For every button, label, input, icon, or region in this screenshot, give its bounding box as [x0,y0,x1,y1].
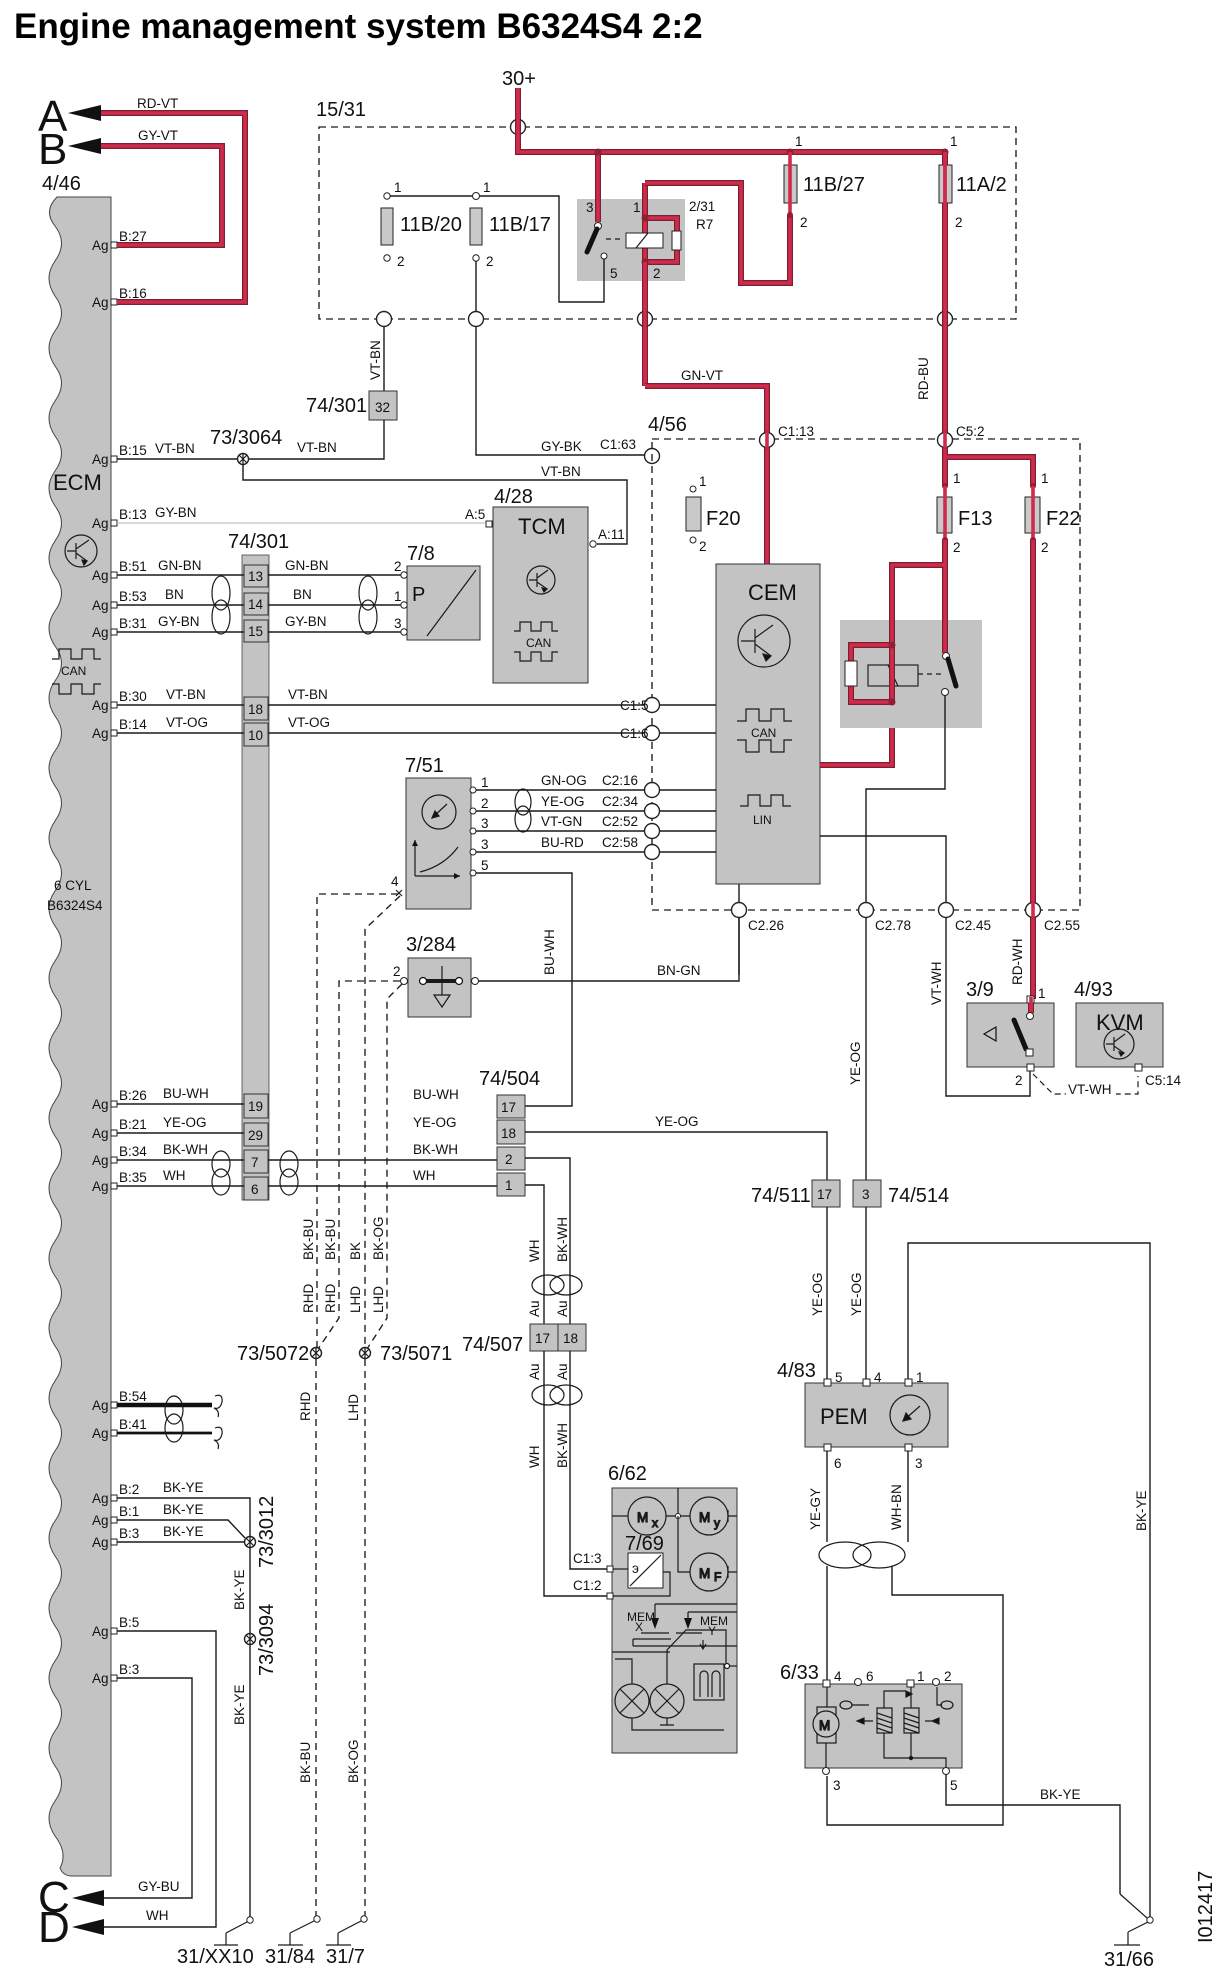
wire YE-OG 74/511 down to PEM pin5 [826,1207,828,1379]
svg-text:BU-WH: BU-WH [413,1087,459,1102]
svg-text:7/8: 7/8 [407,543,435,565]
wire YE-GY PEM pin6 down to 6/33 pin4 [826,1451,828,1680]
lamp 1 [615,1659,724,1730]
twist on PEM pair [819,1542,905,1568]
svg-text:2: 2 [1015,1073,1023,1088]
svg-text:BK-WH: BK-WH [555,1423,570,1468]
ground switch 31/66 [1114,1894,1153,1945]
ECM pin B:26 (Ag) [92,1088,147,1112]
svg-text:GN-VT: GN-VT [681,368,723,383]
svg-text:3: 3 [833,1778,841,1793]
wire B:34 BK-WH row to 74/504-2 [117,1159,497,1161]
svg-text:B:13: B:13 [119,507,147,522]
wire red 30+ branch to relay pin 3 [595,152,601,222]
svg-text:6: 6 [834,1456,842,1471]
svg-text:6/62: 6/62 [608,1463,647,1485]
svg-text:WH: WH [527,1446,542,1469]
svg-text:73/5071: 73/5071 [380,1343,452,1365]
svg-text:BK-YE: BK-YE [1134,1490,1149,1531]
relay 2/31 switch [595,223,602,230]
dashed VT-WH 3/9 pin2 to KVM C5:14 [1033,1074,1138,1094]
junction 73/5072 [311,1347,322,1359]
ECM pin B:54 (Ag) [92,1389,147,1413]
svg-text:Ag: Ag [92,295,109,310]
svg-text:10: 10 [248,728,263,743]
connector circle C2:16 [645,783,660,798]
connector circle on top edge [511,120,526,135]
svg-text:B:30: B:30 [119,689,147,704]
svg-text:GY-BN: GY-BN [285,614,327,629]
cells 13,14,15,18,10,19,29,7,6 [244,565,268,1200]
wire B:35 WH row to 74/504-1 [117,1185,497,1187]
connector circle C2:52 [645,824,660,839]
svg-text:31/84: 31/84 [265,1946,315,1968]
ECM pin B:31 (Ag) [92,616,147,640]
svg-text:WH: WH [146,1908,169,1923]
svg-text:BU-WH: BU-WH [163,1086,209,1101]
TCM pin A:11 [590,541,596,547]
svg-text:4/56: 4/56 [648,414,687,436]
svg-text:B:35: B:35 [119,1170,147,1185]
svg-text:1: 1 [950,134,958,149]
wire GY-VT (red) B to B:27 [101,146,222,245]
svg-text:RD-WH: RD-WH [1010,939,1025,986]
svg-text:2: 2 [1041,540,1049,555]
svg-text:5: 5 [950,1778,958,1793]
svg-text:2: 2 [393,964,401,979]
svg-text:x: x [652,1516,658,1530]
svg-text:2: 2 [953,540,961,555]
wire YE-OG from 74/504-18 to 74/511 [525,1132,827,1180]
svg-text:Au: Au [555,1300,570,1317]
wire B:30 VT-BN row to C1:5 [117,704,716,706]
red F22-2 down RD-WH through C2.55 [1030,540,1036,999]
svg-text:B:14: B:14 [119,717,147,732]
svg-text:M: M [819,1718,830,1733]
svg-text:VT-BN: VT-BN [166,687,206,702]
svg-text:1: 1 [633,200,641,215]
svg-text:17: 17 [535,1331,550,1346]
wire GY-BU from B:3 [104,1678,192,1898]
svg-text:LIN: LIN [753,813,772,827]
svg-text:LHD: LHD [346,1394,361,1421]
relay 2/31 coil [645,183,677,262]
ECM pin B:30 (Ag) [92,689,147,713]
svg-text:74/301: 74/301 [228,531,289,553]
svg-text:B:5: B:5 [119,1615,139,1630]
wire VT-BN from 11B/17-2 circle down, then GY-BK to C1:63 [476,327,645,455]
svg-text:P: P [412,584,425,606]
svg-text:C2:16: C2:16 [602,773,638,788]
fuse F13 [942,483,948,489]
svg-text:CEM: CEM [748,580,797,605]
svg-text:Ag: Ag [92,625,109,640]
connector circle C5:2 [938,433,953,448]
svg-text:ECM: ECM [53,470,102,495]
svg-text:VT-BN: VT-BN [297,440,337,455]
wire BK-YE down to 73/3094 [249,1548,251,1634]
svg-text:C2:34: C2:34 [602,794,639,809]
svg-text:11B/17: 11B/17 [489,214,551,236]
svg-text:C2.55: C2.55 [1044,918,1080,933]
svg-text:3/9: 3/9 [966,979,994,1001]
svg-text:YE-GY: YE-GY [808,1488,823,1530]
svg-text:3: 3 [862,1187,870,1202]
fuse F22 [1030,483,1036,489]
wire B:2 BK-YE [117,1498,250,1536]
svg-text:C1:63: C1:63 [600,437,636,452]
svg-text:LHD: LHD [348,1286,363,1313]
svg-text:1: 1 [505,1178,513,1193]
wire B:31 GY-BN row [117,631,401,633]
ECM pin B:34 (Ag) [92,1144,147,1168]
svg-text:4/83: 4/83 [777,1360,816,1382]
ECM pin B:35 (Ag) [92,1170,147,1194]
svg-text:BK-BU: BK-BU [323,1219,338,1260]
svg-text:VT-OG: VT-OG [288,715,330,730]
wire RD-VT (red) A to B:16 [101,113,245,302]
svg-text:2: 2 [955,215,963,230]
74/301 connector strip [242,555,269,1200]
svg-text:B:51: B:51 [119,559,147,574]
dashed wire 7/51 pin4 diag to LHD column3 [365,896,400,1348]
svg-text:C2.45: C2.45 [955,918,991,933]
svg-text:B:15: B:15 [119,443,147,458]
svg-text:M: M [699,1566,710,1581]
svg-text:74/514: 74/514 [888,1185,949,1207]
svg-text:3: 3 [915,1456,923,1471]
svg-text:B:27: B:27 [119,229,147,244]
svg-text:B:34: B:34 [119,1144,147,1159]
wire WH from B:5 [104,1631,216,1927]
svg-text:5: 5 [481,858,489,873]
connector circle C2.26 [732,903,785,934]
wire 11B/20 pin1 to 11B/17 pin1 [390,195,473,197]
svg-text:2: 2 [394,559,402,574]
svg-text:1: 1 [481,775,489,790]
wire VT-WH from C2.45 to 3/9 pin2 [946,918,1030,1096]
svg-text:4: 4 [874,1370,882,1385]
ignition coil box [694,1664,737,1701]
CEM area: red GN-VT down to C1:13 [645,386,767,564]
ECM pin B:27 (Ag) [92,229,147,253]
svg-text:6 CYL: 6 CYL [54,878,92,893]
svg-text:RHD: RHD [301,1284,316,1313]
svg-text:RD-VT: RD-VT [137,96,178,111]
svg-text:GY-BN: GY-BN [158,614,200,629]
svg-text:BK-BU: BK-BU [298,1742,313,1783]
svg-text:WH: WH [163,1168,186,1183]
svg-text:Ag: Ag [92,1624,109,1639]
connector 74/301 pin 32 [369,391,397,420]
svg-text:F22: F22 [1046,508,1080,530]
fuse 11B/20 [384,193,390,199]
svg-text:74/511: 74/511 [751,1185,811,1207]
svg-text:BK-BU: BK-BU [301,1219,316,1260]
svg-text:2: 2 [505,1152,513,1167]
dashed wire 7/51 pin4 to RHD column1 [317,894,398,1348]
svg-text:M: M [699,1510,710,1525]
dashed wire 3/284 pin2 to RHD column2 [316,981,400,1352]
svg-text:VT-GN: VT-GN [541,814,582,829]
svg-text:Ag: Ag [92,1491,109,1506]
svg-text:BK-OG: BK-OG [371,1216,386,1260]
svg-text:BK-WH: BK-WH [555,1217,570,1262]
svg-text:2: 2 [944,1669,952,1684]
svg-text:C1:13: C1:13 [778,424,814,439]
solenoids in 6/33 [840,1687,953,1768]
twist on 7/51 rows [515,789,531,832]
svg-text:7: 7 [251,1155,259,1170]
red RD-BU from 11A/2 to C5:2 and F13/F22 [945,319,1033,486]
svg-text:7/51: 7/51 [405,755,444,777]
svg-text:BK-YE: BK-YE [232,1684,247,1725]
svg-text:1: 1 [394,589,402,604]
svg-text:B:2: B:2 [119,1482,139,1497]
svg-text:RD-BU: RD-BU [916,357,931,400]
svg-text:B:21: B:21 [119,1117,147,1132]
svg-text:17: 17 [501,1100,516,1115]
svg-text:1: 1 [394,180,402,195]
ECM CAN icon [52,649,101,694]
twisted pair marks right of strip [359,576,377,634]
section divider line [612,1651,670,1653]
svg-text:2: 2 [699,539,707,554]
svg-text:Ag: Ag [92,1426,109,1441]
svg-text:Ag: Ag [92,238,109,253]
svg-text:18: 18 [563,1331,578,1346]
ECM pin B:53 (Ag) [92,589,147,613]
svg-text:74/504: 74/504 [479,1068,540,1090]
svg-text:KVM: KVM [1096,1010,1144,1035]
svg-text:RHD: RHD [298,1392,313,1421]
svg-text:LHD: LHD [371,1286,386,1313]
svg-text:Ag: Ag [92,1671,109,1686]
svg-text:GY-BK: GY-BK [541,439,582,454]
wire 11B/17 pin1 to relay 2/31 pin5 [479,196,604,302]
svg-text:B:3: B:3 [119,1662,139,1677]
svg-text:YE-OG: YE-OG [849,1272,864,1316]
ECM pin B:5 (Ag) [92,1615,139,1639]
svg-text:B:1: B:1 [119,1504,139,1519]
svg-text:YE-OG: YE-OG [810,1272,825,1316]
svg-text:D: D [38,1903,70,1952]
svg-text:YE-OG: YE-OG [655,1114,699,1129]
svg-text:30+: 30+ [502,68,536,90]
svg-text:17: 17 [817,1187,832,1202]
ECM transistor icon [65,535,97,567]
svg-text:F: F [714,1570,721,1584]
pin C1:2 [607,1593,613,1599]
svg-text:VT-OG: VT-OG [166,715,208,730]
ECM pin B:13 (Ag) [92,507,147,531]
svg-text:Ag: Ag [92,598,109,613]
svg-text:Ag: Ag [92,1513,109,1528]
MEM Y slider [687,1612,689,1618]
svg-text:Ag: Ag [92,698,109,713]
wire WH from 74/504-1 down to 74/507-17 [525,1185,544,1324]
svg-text:R7: R7 [696,217,713,232]
svg-text:WH: WH [527,1240,542,1263]
svg-text:GY-BU: GY-BU [138,1879,180,1894]
motor My [666,1488,737,1535]
svg-text:M: M [637,1510,648,1525]
svg-text:4: 4 [834,1669,842,1684]
svg-text:C5:2: C5:2 [956,424,985,439]
wire 11B/17 pin2 down to boundary [475,261,477,319]
svg-text:1: 1 [699,474,707,489]
svg-text:Ag: Ag [92,1179,109,1194]
svg-text:GN-BN: GN-BN [285,558,329,573]
svg-text:VT-BN: VT-BN [368,340,383,380]
ECM pin B:3 (Ag) [92,1662,139,1686]
ECM pin B:21 (Ag) [92,1117,147,1141]
wire B:53 BN row [117,604,401,606]
svg-text:WH: WH [413,1168,436,1183]
svg-text:1: 1 [483,180,491,195]
svg-text:C2.78: C2.78 [875,918,911,933]
svg-text:73/3094: 73/3094 [256,1604,278,1676]
connector circle C2.78 [859,903,912,934]
svg-text:4/93: 4/93 [1074,979,1113,1001]
svg-text:74/301: 74/301 [306,395,367,417]
red F13-2 branch to relay coil and switch [820,540,945,765]
svg-text:Ag: Ag [92,1535,109,1550]
svg-text:y: y [714,1516,720,1530]
svg-text:BN: BN [293,587,312,602]
svg-text:3/284: 3/284 [406,934,456,956]
svg-text:B:26: B:26 [119,1088,147,1103]
svg-text:YE-OG: YE-OG [541,794,585,809]
dashed BK-BU ground run to 31/84 [315,1359,317,1916]
svg-text:5: 5 [610,266,618,281]
ground 31/7 [326,1916,367,1945]
svg-text:3: 3 [394,616,402,631]
svg-text:BK-YE: BK-YE [1040,1787,1081,1802]
svg-text:F20: F20 [706,508,740,530]
twist on B:54/B:41 [165,1396,183,1442]
wire B:51 GN-BN row [117,574,401,576]
ECM pin B:41 (Ag) [92,1417,147,1441]
junction 73/3012 [245,1536,256,1548]
svg-text:2/31: 2/31 [689,199,715,214]
svg-text:B6324S4: B6324S4 [47,898,103,913]
svg-text:4: 4 [391,874,399,889]
svg-text:B:41: B:41 [119,1417,147,1432]
ECM pin B:1 (Ag) [92,1504,139,1528]
svg-text:Ag: Ag [92,726,109,741]
svg-text:TCM: TCM [518,514,566,539]
svg-text:CAN: CAN [526,636,551,650]
svg-text:BU-WH: BU-WH [542,929,557,975]
svg-text:1: 1 [953,471,961,486]
wire B:15 VT-BN to junction and up to pin32 [117,420,384,459]
svg-text:Ag: Ag [92,1153,109,1168]
svg-text:1: 1 [917,1669,925,1684]
connector circle below 11B/20 [377,312,392,327]
svg-text:Ag: Ag [92,1398,109,1413]
wire B:41 thick [117,1432,212,1435]
svg-text:6: 6 [251,1182,259,1197]
relay (in 4/56) [840,620,982,728]
connector circle C1:5 [620,698,660,714]
wire YE-OG 74/514 down to PEM pin4 [865,1207,867,1379]
svg-text:B:53: B:53 [119,589,147,604]
svg-text:11A/2: 11A/2 [956,174,1007,196]
svg-text:BN-GN: BN-GN [657,963,701,978]
svg-text:73/3064: 73/3064 [210,427,282,449]
ECM pin B:2 (Ag) [92,1482,139,1506]
svg-text:73/3012: 73/3012 [256,1496,278,1568]
wire VT-BN branch to TCM A:11 [243,465,627,544]
wire BK-YE down to ground 31/XX10 [249,1645,251,1917]
connector circle GN-VT on 15/31 boundary [638,262,653,386]
svg-text:GN-BN: GN-BN [158,558,202,573]
svg-text:YE-OG: YE-OG [848,1041,863,1085]
connector circle C1:63 [645,449,660,464]
svg-text:BK-WH: BK-WH [413,1142,458,1157]
svg-text:I012417: I012417 [1195,1871,1217,1943]
wire B:1 BK-YE [117,1520,245,1538]
junction 73/5071 [360,1347,371,1359]
svg-text:2: 2 [653,266,661,281]
svg-text:B:3: B:3 [119,1526,139,1541]
wire BN-GN from 3/284 to C2.26 [478,918,739,981]
svg-text:CAN: CAN [61,664,86,678]
svg-text:GY-BN: GY-BN [155,505,197,520]
fuse 11B/17 [473,193,480,200]
wire B:3 BK-YE [117,1541,244,1543]
svg-text:WH-BN: WH-BN [889,1484,904,1530]
wire 30+ feed (red) [518,88,945,152]
lamp 2 [650,1630,726,1725]
svg-text:CAN: CAN [751,726,776,740]
svg-text:A:11: A:11 [598,527,625,542]
fuse 11B/27 [787,149,794,156]
dashed wire 3/284 pin2 diag to LHD column4 [365,984,402,1352]
svg-text:29: 29 [248,1128,263,1143]
svg-text:B:16: B:16 [119,286,147,301]
svg-text:B: B [38,125,67,174]
svg-text:YE-OG: YE-OG [413,1115,457,1130]
svg-text:2: 2 [397,254,405,269]
wire relay output to C2.78 [866,695,945,903]
svg-text:18: 18 [501,1126,516,1141]
svg-text:VT-WH: VT-WH [929,962,944,1006]
svg-text:3: 3 [586,200,594,215]
wire YE-OG C2.78 down to 74/514-3 [865,918,867,1180]
svg-text:VT-BN: VT-BN [541,464,581,479]
svg-text:Y: Y [708,1624,716,1638]
ECM connector block 4/46 [49,197,111,1876]
ECM pin B:15 (Ag) [92,443,147,467]
svg-text:Ag: Ag [92,452,109,467]
wire B:26 BU-WH row [117,1103,244,1105]
CEM module [716,564,820,884]
svg-text:YE-OG: YE-OG [163,1115,207,1130]
svg-text:PEM: PEM [820,1404,868,1429]
wire B:14 VT-OG row to C1:6 [117,732,716,734]
motor M in 6/33 [813,1687,839,1768]
svg-text:VT-WH: VT-WH [1068,1082,1112,1097]
svg-text:BK: BK [348,1242,363,1260]
wire circle to 74/301 pin32 [383,327,385,391]
svg-text:31/66: 31/66 [1104,1949,1154,1971]
svg-text:18: 18 [248,702,263,717]
svg-text:19: 19 [248,1099,263,1114]
wire red vertical through top circle [515,120,521,135]
svg-text:31/7: 31/7 [326,1946,365,1968]
